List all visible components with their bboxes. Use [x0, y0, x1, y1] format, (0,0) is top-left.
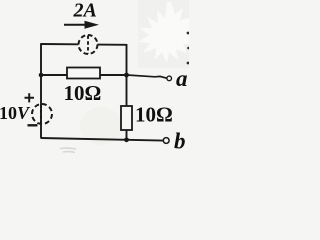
plus sign [25, 93, 35, 102]
svg-text:a: a [176, 66, 188, 91]
resistor R1 box (horizontal) [67, 68, 100, 79]
wire top (left segment to current source) [41, 43, 79, 45]
svg-text:10Ω: 10Ω [64, 81, 102, 105]
svg-text:2A: 2A [73, 0, 97, 22]
wire to terminal a [127, 75, 167, 78]
current source internal bar [87, 36, 89, 54]
voltage source circle [32, 104, 52, 124]
wire top (current source to top-right corner) [98, 44, 127, 46]
resistor R2 box (vertical) [121, 106, 132, 130]
wire right rail [126, 44, 128, 140]
terminal b circle [163, 138, 169, 144]
current source U-I circle [79, 35, 98, 54]
wire left rail [40, 43, 42, 138]
voltage source internal line [40, 105, 42, 124]
stray print speck right edge 2 [187, 47, 190, 50]
watermark splash top-right [138, 2, 189, 63]
svg-text:10V: 10V [0, 103, 31, 123]
watermark blob center [80, 107, 122, 145]
wire middle [41, 74, 127, 76]
wire bottom [41, 138, 163, 141]
junction node bottom [124, 137, 129, 142]
stray print speck right edge 1 [187, 32, 190, 35]
current direction arrow [64, 24, 87, 26]
svg-text:b: b [174, 129, 186, 154]
paper background [0, 0, 189, 156]
faint smudge below bottom wire [60, 148, 76, 152]
junction node right [124, 73, 129, 78]
minus sign [28, 124, 38, 126]
terminal a circle [167, 76, 172, 81]
svg-text:10Ω: 10Ω [135, 103, 173, 127]
junction node left [39, 73, 44, 78]
stray print speck right edge 3 [187, 62, 190, 65]
